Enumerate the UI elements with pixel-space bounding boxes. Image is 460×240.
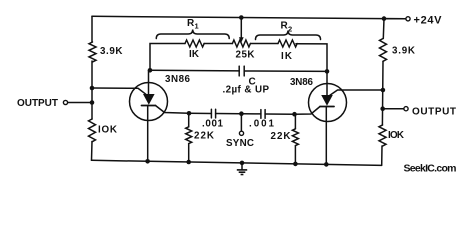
transistor Q2 cathode lead [325,107,327,165]
wire Q2 anode-gate [330,90,383,95]
resistor 1K right [278,40,297,47]
svg-text:IOK: IOK [388,130,404,141]
svg-text:+24V: +24V [414,15,443,27]
svg-text:OUTPUT: OUTPUT [17,98,58,109]
wire left rail middle [91,61,93,119]
svg-text:22K: 22K [194,131,214,142]
resistor 10K left [89,119,96,142]
svg-text:1: 1 [195,21,199,30]
terminal output left [63,100,67,104]
capacitor .001 right plates [260,110,262,119]
transistor Q2 circle [309,84,347,122]
node sync left [187,111,192,116]
transistor Q2 cathode bar [320,106,334,108]
wire right rail middle [381,62,384,126]
svg-text:.001: .001 [249,119,275,130]
transistor Q2 arrow [321,95,333,106]
svg-text:SYNC: SYNC [226,138,254,149]
wire 25K wiper [240,18,242,39]
wire top rail [92,16,406,19]
wire output right [383,108,404,110]
wire between 25K and 1K right [250,43,278,45]
transistor Q1 cathode lead [147,106,149,162]
terminal SYNC [239,131,243,135]
node bottom Q2 cathode [324,162,329,167]
svg-text:SeekIC.com: SeekIC.com [404,163,457,175]
svg-text:IOK: IOK [98,125,117,136]
terminal +24V [406,17,410,21]
svg-text:2: 2 [288,25,292,34]
wire sync stub [240,114,242,132]
wire 22K left leads [188,113,190,127]
svg-text:IK: IK [189,49,199,60]
wire left rail bottom [91,142,94,161]
transistor Q1 arrow [143,94,155,105]
capacitor C plates [238,66,240,76]
transistor Q1 anode lead [148,70,150,94]
wire resistor row left segment [150,44,185,71]
svg-text:25K: 25K [236,50,255,61]
resistor 22K right [292,129,298,146]
node right rail gate [381,88,386,93]
svg-text:.2µf & UP: .2µf & UP [223,85,270,96]
resistor 3.9K right [380,39,387,62]
wire Q1 cathode-gate [156,106,190,114]
wire bottom rail [92,160,382,165]
resistor 10K right [379,125,386,146]
node right rail output [380,106,385,111]
svg-text:.001: .001 [202,119,224,130]
wire sync rail [189,112,211,114]
svg-text:IK: IK [281,51,292,62]
svg-text:3.9K: 3.9K [392,46,415,57]
node Q1 anode [148,68,153,73]
potentiometer wiper arrowhead [239,37,244,42]
node junction top right rail [382,16,387,21]
svg-text:3N86: 3N86 [165,74,191,85]
transistor Q1 circle [130,83,168,121]
node left rail output [90,100,95,105]
svg-text:3.9K: 3.9K [100,46,123,57]
brace R2 [256,31,321,40]
ground stub [241,163,243,170]
wire between 1K left and 25K [204,43,232,45]
wire anode rail right [244,70,327,72]
node bottom 22K right [293,162,298,167]
wire right rail top [382,19,385,39]
wire sync rail middle [216,113,261,115]
wire left rail top segment [91,16,93,42]
node junction top wiper [239,15,244,20]
resistor 3.9K left [89,42,96,62]
resistor 1K left [185,40,204,47]
transistor Q2 anode lead [326,71,328,95]
wire right rail bottom [381,146,383,165]
node bottom ground [240,161,245,166]
svg-text:22K: 22K [271,131,291,142]
node sync right [292,112,297,117]
node sync center [239,111,244,116]
ground symbol [237,169,247,171]
wire resistor row right segment [296,44,327,72]
resistor 22K left [186,127,192,144]
wire anode rail left [150,69,239,72]
node Q2 anode [325,69,330,74]
transistor Q1 cathode bar [142,105,156,107]
wire sync rail right [265,113,294,115]
node left rail gate [90,86,95,91]
wire Q2 cathode-gate [295,107,321,115]
svg-text:3N86: 3N86 [290,77,314,88]
svg-text:OUTPUT: OUTPUT [412,107,456,118]
potentiometer 25K body [232,40,250,47]
wire +24V stub [384,18,406,20]
brace R1 [156,30,229,39]
wire Q1 anode-gate [92,88,146,94]
wire 22K right leads [294,114,296,129]
node bottom 22K left [186,160,191,165]
node bottom Q1 cathode [145,159,150,164]
wire output left [68,102,92,104]
capacitor .001 left plates [210,109,212,118]
terminal output right [404,107,408,111]
